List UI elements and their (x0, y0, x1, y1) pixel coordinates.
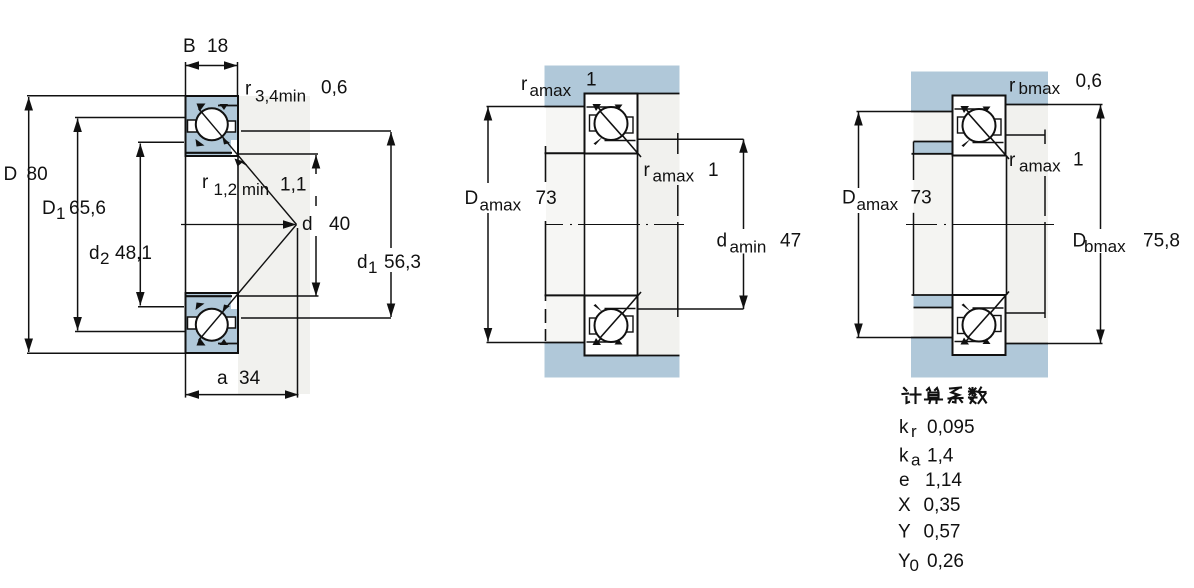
svg-text:Y: Y (898, 522, 911, 543)
svg-text:40: 40 (329, 214, 350, 235)
label r1,2 min 1,1 with leader (202, 159, 306, 200)
bearing top section rings (blue) (186, 96, 239, 156)
svg-text:0,6: 0,6 (321, 78, 347, 99)
svg-text:34: 34 (239, 368, 261, 389)
svg-text:r: r (1009, 76, 1016, 97)
bearing top section (585, 94, 642, 158)
dimension damin 47 (717, 139, 802, 309)
svg-text:r: r (202, 172, 209, 193)
dimension d 40 (bore) (239, 154, 350, 296)
X 0,35 (898, 495, 960, 516)
svg-text:D: D (4, 164, 18, 185)
ka 1,4 (899, 446, 954, 470)
dimension d2 48,1 (89, 142, 184, 306)
bearing left face line (952, 156, 954, 296)
char 数 (969, 388, 986, 404)
svg-text:56,3: 56,3 (384, 252, 421, 273)
housing (blue, bottom) (911, 338, 1048, 378)
dimension Damax 73 (842, 112, 932, 338)
svg-text:1: 1 (708, 160, 719, 181)
svg-text:65,6: 65,6 (69, 198, 106, 219)
bearing right face line (237, 96, 239, 353)
svg-text:D: D (842, 188, 856, 209)
svg-text:a: a (217, 368, 228, 389)
svg-text:0,095: 0,095 (927, 417, 975, 438)
header 计算系数 (drawn strokes) (903, 388, 987, 404)
svg-text:X: X (898, 495, 911, 516)
svg-text:48,1: 48,1 (115, 243, 152, 264)
svg-text:0,26: 0,26 (927, 551, 964, 572)
svg-text:B: B (183, 36, 196, 57)
svg-text:80: 80 (27, 164, 48, 185)
spacer top (912, 142, 953, 154)
extension line shaft upper (638, 138, 744, 140)
housing (blue, top) (545, 66, 680, 107)
dimension a 34 (186, 228, 299, 399)
dimension Damax 73 (465, 107, 557, 343)
dimension Dbmax 75,8 (1048, 105, 1180, 344)
char 算 (925, 388, 942, 403)
apex arrow of d dimension (283, 220, 297, 229)
centerline (181, 224, 290, 226)
bearing right face line (1006, 156, 1008, 296)
svg-text:amax: amax (530, 81, 572, 100)
spacer bottom (912, 295, 1007, 308)
svg-text:e: e (899, 470, 910, 491)
svg-text:r: r (245, 79, 252, 100)
svg-text:1: 1 (56, 204, 65, 223)
bearing left face line (584, 154, 586, 296)
svg-text:73: 73 (536, 188, 557, 209)
svg-text:1,1: 1,1 (280, 175, 306, 196)
svg-text:amax: amax (653, 167, 695, 186)
spacer guideline left (913, 142, 915, 297)
shaft (blue, bottom) (545, 343, 680, 378)
bearing top section (953, 96, 1010, 160)
dimension B 18 (183, 36, 238, 96)
char 系 (949, 388, 963, 403)
svg-text:a: a (911, 451, 921, 470)
contact angle line bottom (199, 225, 297, 341)
char 计 (903, 388, 921, 403)
svg-text:k: k (899, 417, 909, 438)
e 1,14 (899, 470, 962, 491)
svg-text:d: d (89, 243, 100, 264)
svg-text:75,8: 75,8 (1143, 231, 1180, 252)
bearing left face line (185, 96, 187, 353)
svg-text:0: 0 (910, 556, 919, 575)
svg-text:d: d (357, 252, 368, 273)
svg-text:1: 1 (368, 258, 377, 277)
label r3,4min 0,6 (245, 78, 347, 106)
kr 0,095 (899, 417, 975, 441)
svg-text:0,6: 0,6 (1076, 71, 1102, 92)
svg-text:1,14: 1,14 (925, 470, 962, 491)
right guideline (1044, 130, 1046, 319)
abutment guideline left + bore lines (545, 146, 547, 341)
housing (blue, top) (911, 72, 1048, 112)
svg-text:2: 2 (100, 249, 109, 268)
svg-text:d: d (717, 231, 728, 252)
svg-text:r: r (911, 422, 917, 441)
svg-text:k: k (899, 446, 909, 467)
svg-text:amax: amax (480, 196, 522, 215)
label r bmax 0,6 (1009, 71, 1102, 98)
svg-text:0,57: 0,57 (924, 522, 961, 543)
extension line r_amax upper (1007, 134, 1046, 136)
svg-text:d: d (302, 214, 313, 235)
light bands (1007, 96, 1049, 344)
bearing right face line (637, 154, 639, 296)
label r amax 1 (top) (521, 70, 597, 101)
svg-text:1,2 min: 1,2 min (214, 180, 270, 199)
svg-text:amax: amax (1019, 157, 1061, 176)
centerline (545, 224, 684, 226)
svg-text:1: 1 (1073, 150, 1084, 171)
svg-text:D: D (465, 188, 479, 209)
svg-text:amax: amax (857, 195, 899, 214)
svg-text:1,4: 1,4 (927, 446, 954, 467)
centerline (906, 224, 1054, 226)
Y0 0,26 (898, 551, 964, 575)
bearing bottom section (953, 292, 1010, 356)
svg-text:47: 47 (780, 231, 801, 252)
svg-text:r: r (521, 74, 528, 95)
svg-text:bmax: bmax (1084, 237, 1126, 256)
extension line r_amax lower (1007, 312, 1046, 314)
Y 0,57 (898, 522, 960, 543)
svg-text:18: 18 (207, 36, 228, 57)
bearing bottom section (585, 292, 642, 356)
svg-text:0,35: 0,35 (924, 495, 961, 516)
svg-text:r: r (1009, 150, 1016, 171)
svg-text:73: 73 (911, 188, 932, 209)
shaft light band (238, 96, 310, 394)
dimension D 80 (4, 96, 186, 354)
svg-text:bmax: bmax (1019, 79, 1061, 98)
light bands (638, 94, 680, 356)
svg-text:r: r (644, 160, 651, 181)
right guideline (677, 133, 679, 317)
svg-text:amin: amin (730, 238, 767, 257)
bearing bottom section rings (blue) (186, 293, 239, 353)
svg-text:1: 1 (586, 70, 597, 91)
label r amax 1 (right) (1009, 150, 1084, 176)
dimension D1 65,6 (42, 118, 185, 332)
contact angle line top (199, 109, 297, 225)
extension line shaft lower (638, 308, 744, 310)
label r amax 1 (right) (644, 160, 719, 186)
svg-text:3,4min: 3,4min (255, 87, 306, 106)
dimension d1 56,3 (241, 131, 421, 318)
svg-text:D: D (42, 198, 56, 219)
